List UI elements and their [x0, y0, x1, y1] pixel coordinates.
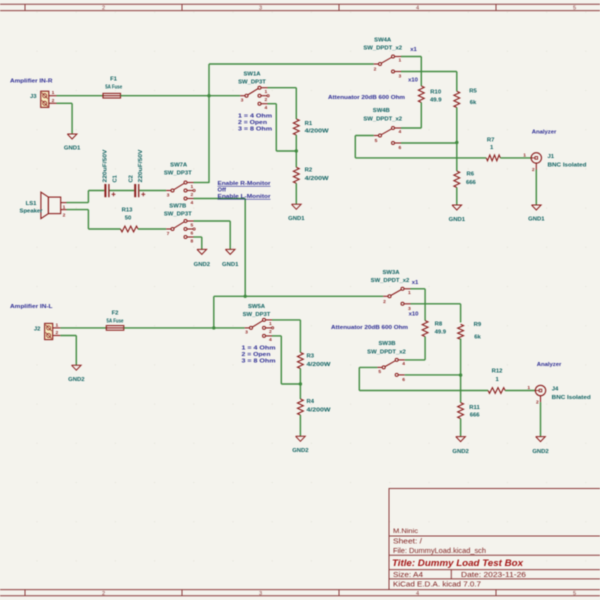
svg-text:3: 3 — [399, 74, 402, 80]
svg-text:4/200W: 4/200W — [307, 362, 332, 368]
svg-text:2: 2 — [52, 98, 55, 104]
svg-text:1: 1 — [265, 89, 268, 95]
wire SW4B t6 to junction — [401, 142, 457, 144]
svg-text:2: 2 — [265, 97, 268, 103]
power GND2 at J4 — [532, 437, 549, 455]
svg-text:Amplifier IN-R: Amplifier IN-R — [10, 79, 53, 85]
power GND1 at J3 — [64, 134, 81, 152]
svg-text:Title: Dummy Load Test Box: Title: Dummy Load Test Box — [392, 558, 524, 568]
svg-text:4: 4 — [265, 105, 268, 111]
wire J3 pin1 to F1 — [57, 95, 104, 97]
junction L monitor — [244, 295, 247, 298]
note switch legend R — [238, 114, 272, 133]
svg-text:R10: R10 — [430, 90, 442, 96]
svg-text:GND1: GND1 — [528, 217, 545, 223]
power GND2 at SW7B — [194, 249, 211, 268]
svg-text:R7: R7 — [487, 138, 495, 144]
svg-text:2 = Open: 2 = Open — [242, 352, 271, 358]
power GND1 at R6 — [449, 205, 466, 223]
wire F2 to SW5A — [124, 327, 245, 329]
connector J2 — [34, 322, 61, 339]
wire SW3B t6 to junction — [405, 374, 461, 376]
svg-text:4/200W: 4/200W — [307, 408, 332, 414]
svg-text:1: 1 — [269, 321, 272, 327]
connector J3 — [30, 90, 57, 107]
svg-text:3: 3 — [241, 98, 244, 104]
switch SW4B — [363, 108, 402, 151]
svg-text:8: 8 — [191, 239, 194, 245]
wire LS1 pin2 down to R13 — [67, 209, 89, 211]
wire R5 to junction — [456, 108, 458, 143]
svg-text:GND1: GND1 — [64, 146, 81, 152]
wire R3 to R4 — [299, 369, 301, 400]
svg-text:SW_DP3T: SW_DP3T — [243, 312, 271, 318]
svg-text:SW3B: SW3B — [378, 341, 395, 347]
svg-text:1: 1 — [56, 322, 59, 328]
svg-text:3: 3 — [259, 6, 262, 12]
wire SW5A t4 to junction — [272, 335, 281, 337]
svg-text:4/200W: 4/200W — [305, 129, 330, 135]
svg-text:Size: A4: Size: A4 — [393, 572, 423, 579]
wire R9 to junction — [460, 339, 462, 376]
svg-text:F2: F2 — [112, 311, 120, 317]
svg-text:J4: J4 — [552, 386, 559, 392]
svg-text:C2: C2 — [129, 175, 135, 182]
wire SW1A t1 to R1 — [268, 87, 297, 89]
power GND1 at SW7B — [222, 249, 239, 268]
svg-text:SW4B: SW4B — [373, 108, 390, 114]
svg-text:Enable L-Monitor: Enable L-Monitor — [218, 194, 272, 200]
svg-text:50: 50 — [125, 216, 132, 222]
svg-text:49.9: 49.9 — [430, 98, 442, 104]
svg-text:x1: x1 — [412, 280, 419, 286]
wire junction to R6 — [456, 143, 458, 172]
svg-text:R4: R4 — [307, 399, 315, 405]
wire node up to attenuator R — [208, 64, 210, 96]
svg-text:2: 2 — [102, 591, 105, 597]
svg-text:2: 2 — [383, 299, 386, 305]
svg-text:SW4A: SW4A — [374, 38, 392, 44]
svg-text:Attenuator 20dB 600 Ohm: Attenuator 20dB 600 Ohm — [328, 95, 405, 101]
svg-text:3: 3 — [259, 591, 262, 597]
wire SW7B t8 to GND2 — [194, 236, 202, 238]
wire L node up — [213, 296, 215, 328]
svg-text:5: 5 — [191, 223, 194, 229]
title block — [389, 489, 600, 590]
wire R6 to GND1 — [456, 188, 458, 206]
svg-text:2: 2 — [532, 167, 535, 173]
svg-text:3 = 8 Ohm: 3 = 8 Ohm — [242, 359, 276, 365]
svg-text:SW_DPDT_x2: SW_DPDT_x2 — [371, 278, 410, 284]
svg-text:GND2: GND2 — [194, 262, 211, 268]
switch SW5A — [243, 304, 274, 343]
svg-text:6: 6 — [399, 145, 402, 151]
svg-text:2: 2 — [63, 212, 66, 218]
svg-text:R2: R2 — [305, 168, 313, 174]
power GND2 at J2 — [68, 365, 85, 383]
wire SW7A t4 to L-channel — [194, 198, 246, 200]
svg-text:SW7B: SW7B — [169, 204, 186, 210]
power GND2 at R11 — [452, 437, 469, 455]
svg-text:2: 2 — [374, 67, 377, 73]
svg-text:R3: R3 — [307, 354, 315, 360]
svg-text:5: 5 — [573, 6, 576, 12]
capacitor C1 — [103, 149, 119, 197]
svg-text:J2: J2 — [34, 326, 41, 332]
svg-text:6k: 6k — [474, 334, 481, 340]
svg-text:1: 1 — [63, 204, 66, 210]
switch SW3B — [367, 341, 406, 383]
svg-text:C1: C1 — [112, 174, 118, 182]
switch SW3A — [371, 270, 411, 312]
svg-text:1: 1 — [191, 184, 194, 190]
resistor R3 — [298, 353, 332, 369]
svg-text:3: 3 — [167, 193, 170, 199]
svg-text:5A Fuse: 5A Fuse — [107, 319, 125, 325]
svg-text:GND1: GND1 — [449, 217, 466, 223]
svg-text:GND1: GND1 — [288, 216, 305, 222]
svg-text:BNC Isolated: BNC Isolated — [548, 163, 587, 169]
svg-text:GND2: GND2 — [68, 377, 85, 383]
wire node down to monitor sw — [208, 96, 210, 183]
svg-text:R12: R12 — [492, 368, 504, 374]
resistor R7 — [486, 138, 500, 161]
svg-text:6: 6 — [402, 377, 405, 383]
svg-text:SW3A: SW3A — [382, 270, 400, 276]
svg-text:x10: x10 — [409, 311, 420, 317]
svg-text:220uF/50V: 220uF/50V — [138, 149, 144, 182]
wire R10 to SW4B t4 — [420, 103, 422, 129]
svg-text:1: 1 — [408, 290, 411, 296]
svg-text:5A Fuse: 5A Fuse — [105, 85, 123, 91]
svg-text:GND1: GND1 — [222, 262, 239, 268]
svg-text:2: 2 — [536, 399, 539, 405]
resistor R13 — [121, 208, 139, 232]
capacitor C2 — [129, 149, 146, 197]
wire C2 to SW7A — [139, 190, 166, 192]
svg-text:R9: R9 — [474, 322, 482, 328]
svg-text:J3: J3 — [30, 94, 37, 100]
connector J4 BNC — [527, 385, 591, 406]
svg-text:Off: Off — [218, 188, 227, 194]
svg-text:4: 4 — [416, 6, 419, 12]
svg-text:2: 2 — [56, 330, 59, 336]
svg-text:SW7A: SW7A — [170, 163, 188, 169]
wire junction to R11 — [460, 375, 462, 403]
svg-text:5: 5 — [378, 369, 381, 375]
wire R7 to J1 — [500, 157, 531, 159]
wire R12 to J4 — [505, 390, 535, 392]
svg-text:5: 5 — [375, 138, 378, 144]
svg-text:2 = Open: 2 = Open — [238, 120, 267, 126]
resistor R10 — [418, 86, 442, 104]
svg-text:R11: R11 — [469, 405, 480, 411]
switch SW1A — [238, 72, 269, 111]
junction R1-R2 — [295, 149, 298, 152]
junction at 209,96 — [207, 94, 210, 97]
connector J1 BNC — [523, 152, 587, 173]
svg-text:4: 4 — [399, 129, 402, 135]
svg-text:SW_DPDT_x2: SW_DPDT_x2 — [363, 117, 402, 123]
svg-text:1: 1 — [523, 152, 526, 158]
svg-text:LS1: LS1 — [26, 201, 38, 207]
svg-text:R6: R6 — [467, 172, 475, 178]
wire SW3A t3 to R9 — [411, 303, 461, 305]
wire LS1 pin1 up to caps — [67, 202, 89, 204]
svg-text:R13: R13 — [122, 208, 134, 214]
svg-text:4: 4 — [191, 200, 194, 206]
svg-text:x10: x10 — [408, 78, 419, 84]
resistor R2 — [293, 167, 329, 183]
svg-text:1: 1 — [399, 58, 402, 64]
svg-text:5: 5 — [573, 591, 576, 597]
wire R2 to GND1 — [295, 183, 297, 204]
svg-text:SW_DPDT_x2: SW_DPDT_x2 — [367, 350, 406, 356]
resistor R1 — [293, 119, 329, 135]
svg-text:3: 3 — [245, 330, 248, 336]
svg-text:SW_DP3T: SW_DP3T — [164, 171, 192, 177]
power GND1 at R2 — [288, 204, 305, 222]
svg-text:4: 4 — [269, 337, 272, 343]
svg-text:KiCad E.D.A. kicad 7.0.7: KiCad E.D.A. kicad 7.0.7 — [393, 582, 481, 589]
junction R5-R6 — [455, 141, 458, 144]
fuse F1 — [103, 77, 123, 98]
svg-text:220uF/50V: 220uF/50V — [103, 149, 109, 182]
svg-text:2: 2 — [269, 329, 272, 335]
svg-text:Attenuator 20dB 600 Ohm: Attenuator 20dB 600 Ohm — [331, 325, 408, 331]
svg-text:F1: F1 — [110, 77, 118, 83]
svg-text:49.9: 49.9 — [435, 329, 447, 335]
speaker LS1 — [20, 192, 67, 218]
svg-text:3 = 8 Ohm: 3 = 8 Ohm — [238, 127, 272, 133]
svg-text:Sheet: /: Sheet: / — [393, 539, 422, 546]
svg-text:Analyzer: Analyzer — [537, 362, 562, 368]
svg-text:Speaker: Speaker — [20, 208, 44, 214]
wire R4 to GND2 — [299, 415, 301, 436]
svg-text:SW5A: SW5A — [248, 304, 266, 310]
svg-text:R5: R5 — [469, 89, 477, 95]
wire SW7A t1 to node — [194, 182, 210, 184]
svg-text:666: 666 — [466, 180, 477, 186]
wire R11 to GND2 — [460, 419, 462, 437]
svg-text:Enable R-Monitor: Enable R-Monitor — [218, 181, 272, 187]
wire F1 to SW1A — [121, 95, 241, 97]
wire R1 to R2 — [295, 135, 297, 167]
note Enable monitor — [218, 181, 272, 200]
svg-text:File: DummyLoad.kicad_sch: File: DummyLoad.kicad_sch — [393, 548, 486, 555]
wire SW1A t3 to junction — [268, 103, 277, 105]
wire SW3B common to R12 — [359, 366, 377, 368]
junction L main — [212, 326, 215, 329]
svg-text:1 = 4 Ohm: 1 = 4 Ohm — [242, 346, 276, 352]
svg-text:GND2: GND2 — [452, 449, 469, 455]
svg-text:4: 4 — [402, 361, 405, 367]
note switch legend L — [242, 346, 276, 365]
svg-text:7: 7 — [167, 231, 170, 237]
wire J1 to GND1 — [535, 170, 537, 206]
svg-text:SW1A: SW1A — [243, 72, 261, 78]
svg-text:SW_DPDT_x2: SW_DPDT_x2 — [363, 46, 402, 52]
resistor R11 — [458, 403, 481, 419]
svg-text:Amplifier IN-L: Amplifier IN-L — [10, 304, 53, 310]
switch SW7B — [164, 204, 195, 245]
wire R8 to SW3B t4 — [424, 337, 426, 360]
wire SW4B common to R7 — [355, 135, 373, 137]
svg-text:2: 2 — [102, 6, 105, 12]
svg-text:J1: J1 — [548, 154, 555, 160]
wire SW4A t1 to R10 — [401, 56, 421, 58]
wire J3 pin2 to GND1 — [57, 102, 73, 104]
resistor R4 — [298, 399, 332, 415]
junction R9-R11 — [459, 373, 462, 376]
wire SW4A t3 to R5 — [401, 71, 457, 73]
svg-text:666: 666 — [470, 413, 481, 419]
wire SW7B t5 to GND1 — [194, 220, 231, 222]
switch SW4A — [363, 38, 402, 80]
wire C1 to C2 — [110, 190, 135, 192]
power GND2 at R4 — [292, 436, 309, 454]
resistor R12 — [488, 368, 505, 393]
resistor R6 — [454, 171, 477, 188]
svg-text:x1: x1 — [410, 47, 417, 53]
wire SW3A t1 to R8 — [411, 288, 426, 290]
svg-text:1 = 4 Ohm: 1 = 4 Ohm — [238, 114, 272, 120]
fuse F2 — [106, 311, 124, 331]
svg-text:4/200W: 4/200W — [305, 176, 330, 182]
svg-text:SW_DP3T: SW_DP3T — [238, 80, 266, 86]
wire node to SW3A — [245, 295, 383, 297]
resistor R5 — [454, 89, 478, 108]
svg-text:SW_DP3T: SW_DP3T — [164, 212, 192, 218]
power GND1 at J1 — [528, 205, 545, 223]
svg-text:Date: 2023-11-26: Date: 2023-11-26 — [461, 572, 526, 579]
svg-text:Analyzer: Analyzer — [532, 130, 557, 136]
svg-text:R8: R8 — [435, 321, 443, 327]
wire SW5A t1 to R3 — [272, 319, 300, 321]
svg-text:4: 4 — [416, 591, 419, 597]
svg-text:M.Ninic: M.Ninic — [393, 528, 419, 535]
svg-text:6k: 6k — [470, 100, 477, 106]
svg-text:GND2: GND2 — [532, 449, 549, 455]
resistor R9 — [458, 322, 482, 341]
wire J4 to GND2 — [540, 402, 542, 437]
svg-text:R1: R1 — [305, 121, 313, 127]
svg-text:GND2: GND2 — [292, 448, 309, 454]
svg-text:6: 6 — [191, 231, 194, 237]
svg-text:1: 1 — [527, 385, 530, 391]
switch SW7A — [164, 163, 195, 206]
wire J2 pin2 to GND2 — [60, 335, 76, 337]
svg-text:1: 1 — [52, 90, 55, 96]
svg-text:2: 2 — [191, 192, 194, 198]
resistor R8 — [422, 321, 447, 337]
wire J2 pin1 to F2 — [60, 327, 106, 329]
svg-text:BNC Isolated: BNC Isolated — [552, 395, 591, 401]
junction R3-R4 — [299, 382, 302, 385]
wire R13 to SW7B — [138, 228, 166, 230]
